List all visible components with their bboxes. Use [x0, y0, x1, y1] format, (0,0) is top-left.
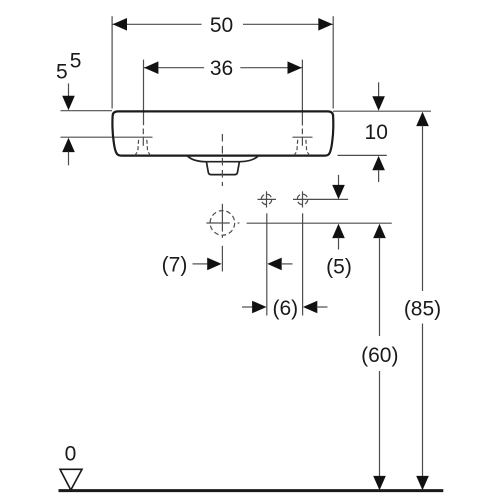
dimension 10 bottom line [338, 154, 387, 156]
dimension 50 extension line right [332, 16, 334, 108]
horizontal line at drain hole level [247, 222, 392, 224]
dimension 60 down arrowhead [373, 476, 386, 490]
tap hole left vertical dash lower [142, 137, 144, 146]
bracket hole right circle (dashed) [297, 194, 307, 204]
dimension 7 left-pointing arrowhead [267, 258, 281, 271]
bracket hole right vertical arm [302, 191, 304, 207]
dimension 5 down arrowhead [332, 185, 345, 199]
tap hole right horizontal arm [293, 136, 313, 138]
extension line below right bracket hole [302, 213, 304, 315]
basin center line (dashed) [221, 134, 223, 186]
bracket hole left vertical arm [266, 191, 268, 207]
drain hole cross horizontal dash [238, 222, 240, 224]
dimension 5 up arrow tail [338, 238, 340, 250]
center line segment above circle [221, 204, 223, 232]
dimension 10 top line [333, 110, 431, 112]
dimension 60 up arrowhead [373, 224, 386, 238]
drain flange [188, 156, 258, 162]
dimension 7 left-pointing arrow tail [281, 263, 293, 265]
dimension 7 right-pointing arrowhead [207, 258, 221, 271]
dimension 60 line upper segment [379, 238, 381, 337]
dimension 6 right-pointing arrowhead [252, 301, 266, 314]
svg-text:5: 5 [70, 50, 82, 73]
svg-text:(85): (85) [404, 298, 441, 321]
dimension 85 line lower segment [422, 324, 424, 478]
dimension 6 left-pointing arrow tail [317, 306, 328, 308]
dimension 5.5 up arrow tail [68, 152, 70, 166]
tap hole right cone left side (dashed) [294, 140, 298, 156]
center line tick for dimension 7 [221, 246, 223, 272]
dimension 10 down arrow tail [378, 82, 380, 97]
dimension 50 arrowhead right [318, 18, 332, 31]
dimension 7 right-pointing arrow tail [193, 263, 208, 265]
dimension 5.5 bottom line [61, 136, 153, 138]
svg-text:(60): (60) [361, 344, 398, 367]
bracket hole left circle (dashed) [261, 194, 271, 204]
svg-text:(6): (6) [272, 297, 298, 320]
svg-text:0: 0 [65, 442, 77, 465]
dimension 5.5 down arrow tail [68, 83, 70, 96]
dimension 50 line right segment [243, 23, 333, 25]
dimension 5 down arrow tail [338, 175, 340, 186]
dimension 10 up arrow tail [378, 170, 380, 182]
svg-text:(5): (5) [326, 255, 352, 278]
dimension 10 down arrowhead [372, 96, 385, 110]
svg-text:5: 5 [56, 60, 68, 83]
dimension 50 line left segment [112, 23, 202, 25]
tap hole left vertical dash upper [142, 129, 144, 135]
dimension 85 line upper segment [422, 126, 424, 292]
bracket hole right horizontal arm extended [293, 198, 348, 200]
dimension 85 down arrowhead [416, 476, 429, 490]
tap hole right cone right side (dashed) [306, 140, 310, 156]
drain hole circle (dashed) [210, 211, 235, 236]
tap hole right vertical dash upper [301, 129, 303, 135]
tap hole left cone right side (dashed) [147, 140, 151, 156]
dimension 5.5 up arrowhead [62, 138, 75, 152]
svg-text:10: 10 [365, 121, 388, 144]
dimension 6 right-pointing arrow tail [242, 306, 253, 308]
dimension 36 extension line right [301, 60, 303, 126]
extension line below left bracket hole [266, 213, 268, 315]
drain hole cross horizontal arm [206, 222, 229, 224]
tap hole right vertical dash lower [301, 137, 303, 146]
dimension 5.5 top line [61, 110, 113, 112]
center line short dash below circle [221, 235, 223, 238]
dimension 5 up arrowhead [332, 224, 345, 238]
drain tailpiece [206, 162, 239, 175]
dimension 36 line right segment [240, 67, 302, 69]
svg-text:50: 50 [210, 14, 233, 37]
tap hole left cone left side (dashed) [135, 140, 139, 156]
dimension 36 extension line left [143, 60, 145, 126]
dimension 10 up arrowhead [372, 156, 385, 170]
washbasin outline [112, 111, 333, 155]
dimension 60 line lower segment [379, 371, 381, 477]
svg-text:36: 36 [210, 57, 233, 80]
floor line [59, 489, 444, 492]
dimension 50 arrowhead left [113, 18, 127, 31]
dimension 36 line left segment [144, 67, 205, 69]
datum triangle [60, 469, 82, 490]
dimension 50 extension line left [111, 16, 113, 108]
svg-text:(7): (7) [162, 254, 188, 277]
dimension 6 left-pointing arrowhead [303, 301, 317, 314]
dimension 36 arrowhead left [144, 61, 158, 74]
dimension 36 arrowhead right [288, 61, 302, 74]
dimension 5.5 down arrowhead [62, 96, 75, 110]
bracket hole left horizontal arm [258, 198, 277, 200]
dimension 85 up arrowhead [416, 112, 429, 126]
